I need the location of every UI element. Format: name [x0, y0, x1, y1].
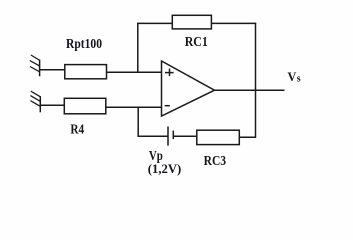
- svg-text:Rpt100: Rpt100: [66, 37, 102, 52]
- svg-text:R4: R4: [70, 122, 84, 137]
- svg-text:RC1: RC1: [185, 35, 208, 50]
- svg-text:(1,2V): (1,2V): [148, 162, 182, 176]
- svg-text:RC3: RC3: [204, 154, 227, 169]
- svg-text:s: s: [297, 73, 301, 84]
- svg-text:V: V: [288, 69, 297, 84]
